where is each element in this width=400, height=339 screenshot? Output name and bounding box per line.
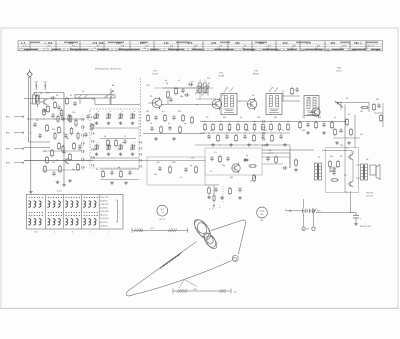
ground g2 <box>44 109 46 110</box>
wire w17 <box>237 100 247 102</box>
wire w9 <box>95 104 140 106</box>
capacitor C14 <box>158 167 161 169</box>
resistor R7 <box>58 144 61 149</box>
trimmer cap CT1 <box>197 86 200 93</box>
test aerial stub 1 <box>35 83 37 90</box>
svg-text:SP 6014-02-GL L3X71T /54: SP 6014-02-GL L3X71T /54 <box>95 68 121 70</box>
svg-text:6p: 6p <box>118 167 120 169</box>
resistor R14 <box>175 89 178 94</box>
capacitor C32 <box>57 106 60 108</box>
resistor R77 <box>54 134 56 139</box>
svg-text:MG: MG <box>376 50 380 52</box>
resistor R10 <box>69 155 72 160</box>
wire w32 <box>154 87 196 89</box>
resistor R51 <box>362 106 367 108</box>
leader line <box>179 280 184 289</box>
svg-text:g: g <box>122 142 123 144</box>
capacitor C13 <box>123 140 126 142</box>
svg-text:n5: n5 <box>168 123 170 125</box>
capacitor C18 <box>214 188 217 190</box>
loop aerial eyelet spiral <box>232 255 238 261</box>
svg-text:1n: 1n <box>180 177 182 179</box>
resistor R61 <box>337 162 340 167</box>
wire w10 <box>94 99 96 105</box>
svg-text:e: e <box>98 142 99 144</box>
svg-text:12: 12 <box>124 136 126 138</box>
svg-text:22k: 22k <box>340 145 343 147</box>
resistor R70 <box>54 103 57 108</box>
resistor R76 <box>91 125 93 130</box>
capacitor C16 <box>210 157 213 159</box>
bottom rule <box>0 307 399 309</box>
coil set column 4 <box>84 197 85 198</box>
svg-text:1k: 1k <box>210 171 212 173</box>
svg-text:R20: R20 <box>172 162 175 164</box>
resistor R15 <box>147 116 150 121</box>
wire w18 <box>200 121 345 123</box>
svg-text:M1: M1 <box>261 220 264 222</box>
svg-text:R1: R1 <box>150 96 152 98</box>
ground g12 <box>355 222 357 223</box>
wire w1 <box>34 92 64 94</box>
knob circle 2 <box>257 207 268 218</box>
resistor R3 <box>69 116 72 121</box>
svg-text:56: 56 <box>340 156 342 158</box>
resistor R17 <box>182 116 185 121</box>
svg-text:38-52 5,2: 38-52 5,2 <box>100 215 108 217</box>
svg-text:OC71: OC71 <box>336 70 342 72</box>
svg-text:n5: n5 <box>333 167 335 169</box>
speaker LS <box>370 165 376 175</box>
svg-text:a: a <box>286 209 287 211</box>
svg-text:5 140: 5 140 <box>260 211 265 213</box>
svg-text:240: 240 <box>164 42 169 45</box>
resistor R23 <box>107 141 110 146</box>
coil table frame <box>27 195 124 230</box>
capacitor C23 <box>339 129 342 131</box>
capacitor C11 <box>110 171 113 173</box>
capacitor C36 <box>61 117 64 119</box>
svg-text:C40: C40 <box>156 162 159 164</box>
ground g8 <box>239 196 241 197</box>
wire bus y145 <box>195 144 290 146</box>
capacitor C9 <box>150 127 153 129</box>
svg-text:8,2: 8,2 <box>162 111 165 113</box>
resistor R6 <box>46 126 49 131</box>
loop aerial tape marks <box>160 264 164 268</box>
svg-text:C30: C30 <box>190 81 193 83</box>
transistor Q-in <box>43 99 45 104</box>
dial scale tick marks <box>19 49 21 51</box>
resistor R54 <box>299 123 302 128</box>
svg-text:39: 39 <box>56 95 58 97</box>
svg-text:100: 100 <box>330 156 333 158</box>
wire w12 <box>163 87 205 89</box>
wire w24 <box>262 149 314 151</box>
resistor R1 <box>43 110 46 115</box>
resistor R53 <box>380 116 383 121</box>
svg-text:1n: 1n <box>282 130 284 132</box>
band switch contact column SKb <box>138 141 141 144</box>
output stage enclosure <box>326 148 359 193</box>
output transformer S6 <box>361 164 364 180</box>
resistor R29 <box>208 188 211 193</box>
capacitor C31 <box>62 150 65 152</box>
capacitor C24 <box>332 171 335 173</box>
resistor R12 <box>59 167 62 172</box>
svg-text:30: 30 <box>104 136 106 138</box>
resistor R78 <box>77 134 79 139</box>
svg-text:c: c <box>122 111 123 113</box>
resistor R26 <box>219 157 222 162</box>
svg-text:51: 51 <box>23 45 27 47</box>
coil set column 2 <box>48 197 49 198</box>
coil L2 <box>199 83 202 93</box>
capacitor C15 <box>184 168 187 170</box>
svg-text:52: 52 <box>48 45 52 47</box>
svg-text:L 2: L 2 <box>307 43 312 45</box>
svg-text:TS5: TS5 <box>268 150 271 152</box>
resistor R16 <box>164 116 167 121</box>
resistor R65 <box>295 160 298 165</box>
resistor R72 <box>47 107 50 112</box>
svg-text:12k: 12k <box>302 117 305 119</box>
bus vertical left <box>63 110 65 183</box>
ferrite rod aerial <box>75 95 115 98</box>
svg-text:220: 220 <box>154 174 157 176</box>
diode D1 <box>243 159 249 161</box>
wire w11 <box>162 104 215 106</box>
resistor row mid (R31-R41) <box>204 125 207 130</box>
capacitor C17 <box>226 157 229 159</box>
capacitor C10 <box>168 127 171 129</box>
thermistor R63 <box>330 168 335 171</box>
tuning link 2 (dashed) <box>213 186 215 197</box>
tuning slug arrows S3 <box>269 88 273 93</box>
aerial A1 <box>28 77 30 142</box>
wire w8 <box>90 157 139 159</box>
svg-text:n47: n47 <box>210 130 213 132</box>
svg-text:SK8: SK8 <box>317 211 321 213</box>
svg-text:3p: 3p <box>165 80 167 82</box>
wire w25 <box>352 160 354 181</box>
resistor R19 <box>160 127 163 132</box>
svg-text:30p: 30p <box>180 96 183 98</box>
trimmer coil block T4 top <box>131 114 132 119</box>
svg-text:S4: S4 <box>308 98 310 100</box>
trimmer coil block T4 bottom <box>131 145 132 150</box>
svg-text:15: 15 <box>208 83 210 85</box>
ground g13 <box>295 168 297 169</box>
battery terminal plus <box>302 227 305 230</box>
coil set column 1 <box>29 197 30 198</box>
capacitor C3 <box>33 123 36 125</box>
svg-text:b: b <box>110 111 111 113</box>
coil table side bracket <box>117 200 119 222</box>
output stage rail top <box>322 150 352 152</box>
resistor R22 <box>120 172 123 177</box>
coil S1 <box>33 95 36 104</box>
ground g7 <box>208 196 210 197</box>
resistor R66 <box>291 89 294 94</box>
svg-text:3,5-4,2 25: 3,5-4,2 25 <box>100 204 108 206</box>
wire w20 <box>335 101 369 103</box>
resistor R69 <box>36 96 39 101</box>
wire w15 <box>100 138 136 140</box>
svg-text:220: 220 <box>52 162 55 164</box>
svg-text:L3: L3 <box>82 91 84 93</box>
svg-text:S2: S2 <box>222 95 224 97</box>
resistor R30 <box>229 189 232 194</box>
svg-text:x: x <box>119 211 120 213</box>
band switch contact column SKa2 <box>91 116 94 119</box>
svg-text:M67 56 708: M67 56 708 <box>360 226 371 228</box>
resistor R62 <box>332 179 337 181</box>
driver transformer S5 <box>315 163 318 180</box>
transistor TS4 <box>312 108 320 116</box>
svg-text:54: 54 <box>72 45 76 47</box>
tuning link (dashed) <box>140 78 142 138</box>
resistor R73 <box>57 117 59 122</box>
svg-text:501: 501 <box>261 214 264 216</box>
transistor TS6 <box>349 154 351 159</box>
wire IF top <box>200 87 213 89</box>
wire w23 <box>333 137 360 139</box>
svg-text:S3: S3 <box>252 95 254 97</box>
svg-text:D1: D1 <box>346 98 348 100</box>
volume potentiometer R28 <box>253 176 256 181</box>
resistor R68 <box>44 167 47 172</box>
resistor R58 <box>346 120 349 125</box>
svg-text:2xOC72: 2xOC72 <box>366 195 373 197</box>
svg-text:1k: 1k <box>40 93 42 95</box>
svg-text:mm: mm <box>234 291 237 293</box>
wire w30 <box>282 90 284 101</box>
wire w5 <box>24 147 50 149</box>
resistor R57 <box>334 130 337 135</box>
resistor R27 <box>250 165 255 167</box>
ground g6 <box>111 181 113 182</box>
svg-text:68: 68 <box>36 120 38 122</box>
electrolytic capacitor C25 <box>353 215 359 217</box>
resistor R21 <box>102 172 105 177</box>
capacitor C34 <box>169 98 172 100</box>
capacitor C5 <box>52 172 55 174</box>
svg-text:470: 470 <box>302 130 305 132</box>
svg-text:W. 2-7: W. 2-7 <box>159 219 166 221</box>
resistor R25 <box>195 167 198 172</box>
dial scale dividers <box>29 41 31 51</box>
resistor R13 <box>167 92 170 97</box>
svg-text:25-38 3,5: 25-38 3,5 <box>100 200 108 202</box>
capacitor C7 <box>154 116 157 118</box>
resistor R67 <box>51 151 54 156</box>
capacitor C26 <box>266 157 269 159</box>
resistor R8 <box>73 144 76 149</box>
wire w33 <box>42 150 82 152</box>
svg-text:0,1: 0,1 <box>34 93 37 95</box>
aerial arrow input <box>110 89 112 105</box>
svg-text:3k3: 3k3 <box>318 117 321 119</box>
junction dots left <box>63 118 64 119</box>
capacitor C6 <box>181 89 184 91</box>
resistor R55 <box>315 123 318 128</box>
capacitor C38 <box>64 134 67 136</box>
wire w3 <box>27 118 83 120</box>
wire w22 <box>344 105 346 149</box>
capacitor C20 <box>377 104 380 106</box>
ground g4 <box>57 181 59 182</box>
svg-text:330: 330 <box>235 43 240 45</box>
transistor TS1 <box>152 98 162 108</box>
capacitor C28 <box>295 88 298 90</box>
loop aerial upper edge <box>127 292 129 297</box>
wire bottom bus <box>316 211 356 213</box>
svg-text:5k: 5k <box>348 114 350 116</box>
svg-text:360: 360 <box>259 43 264 45</box>
svg-text:5-7: 5-7 <box>161 212 164 214</box>
band switch contact column SKc <box>261 120 264 123</box>
svg-text:2,2k: 2,2k <box>72 112 76 114</box>
svg-text:5,2-6,4 38: 5,2-6,4 38 <box>100 211 108 213</box>
wire w4 <box>24 160 93 162</box>
svg-text:n1: n1 <box>334 117 336 119</box>
resistor R79 <box>62 147 64 152</box>
wire w21 <box>374 112 383 114</box>
capacitor C35 <box>185 93 187 96</box>
loop aerial apex edge <box>211 220 246 254</box>
svg-text:470: 470 <box>257 117 260 119</box>
svg-text:OC169: OC169 <box>218 75 225 77</box>
IF transformer S4 <box>304 96 319 116</box>
transistor TS2 <box>212 99 222 109</box>
svg-text:82k: 82k <box>274 117 277 119</box>
wire w2 <box>24 98 95 100</box>
svg-text:1k: 1k <box>240 117 242 119</box>
wire w14 <box>100 168 139 170</box>
dial scale frame <box>18 41 383 51</box>
diode D2 (detector) <box>337 103 343 108</box>
svg-text:270: 270 <box>188 43 193 45</box>
resistor R24 <box>169 167 172 172</box>
loop aerial winding coil <box>192 217 219 250</box>
wire w26 <box>285 210 302 212</box>
svg-text:2k2: 2k2 <box>360 111 363 113</box>
capacitor C4 <box>38 134 41 136</box>
svg-text:TS6 TS7: TS6 TS7 <box>366 193 373 195</box>
svg-text:25-38 3,5: 25-38 3,5 <box>100 208 108 210</box>
resistor R74 <box>68 116 70 121</box>
IF transformer S2 <box>221 94 237 115</box>
capacitor C2 <box>51 114 54 116</box>
wire w16 <box>147 160 205 162</box>
resistor R2 <box>60 111 63 116</box>
resistor R18 <box>191 118 194 123</box>
svg-text:±170: ±170 <box>150 228 154 230</box>
svg-text:n47: n47 <box>360 134 363 136</box>
wire w7 <box>90 127 139 129</box>
dimension line 2 <box>173 290 231 292</box>
svg-text:A2: A2 <box>112 84 114 87</box>
dial scale heavy scale segments <box>24 48 38 50</box>
wire w27 <box>302 213 304 227</box>
svg-text:2n2: 2n2 <box>246 130 249 132</box>
resistor R52 <box>373 105 376 110</box>
module board outline 2 <box>205 148 262 175</box>
wire bus mid <box>24 160 147 162</box>
band switch contact column SKa <box>81 118 84 121</box>
trimmer coil block T1 top <box>95 114 96 119</box>
svg-text:47: 47 <box>70 95 72 97</box>
test aerial stub 2 <box>44 83 46 90</box>
capacitor C39 <box>84 133 87 135</box>
capacitor C12 <box>128 171 131 173</box>
resistor R64 <box>275 157 278 162</box>
svg-text:470: 470 <box>178 111 181 113</box>
battery B1 <box>302 209 304 213</box>
wire w6 <box>29 141 50 143</box>
resistor R60 <box>329 162 332 167</box>
svg-text:2p: 2p <box>96 169 98 171</box>
dimension line 1 <box>132 229 188 231</box>
svg-text:400: 400 <box>283 42 288 45</box>
svg-text:11: 11 <box>144 48 147 50</box>
svg-text:S5: S5 <box>318 157 320 159</box>
svg-text:d: d <box>134 111 135 113</box>
transistor TS3 <box>247 99 257 109</box>
svg-text:6k8: 6k8 <box>223 117 226 119</box>
svg-text:AF116: AF116 <box>253 72 260 75</box>
resistor R9 <box>46 158 49 163</box>
ground under aerial <box>30 190 32 191</box>
svg-text:h: h <box>134 142 135 144</box>
svg-text:12k: 12k <box>46 93 49 95</box>
transistor Q2 <box>65 158 67 163</box>
svg-text:2n: 2n <box>150 123 152 125</box>
svg-text:38-52 5,2: 38-52 5,2 <box>100 222 108 224</box>
resistor R4 <box>58 128 61 133</box>
capacitor C1 <box>51 96 53 99</box>
resistor R59 <box>350 130 353 135</box>
IF transformer S3 <box>266 94 282 115</box>
svg-text:4k7: 4k7 <box>228 130 231 132</box>
svg-text:1n: 1n <box>44 151 46 153</box>
svg-text:56: 56 <box>97 45 101 47</box>
module board outline 1 <box>147 157 205 185</box>
svg-text:n5: n5 <box>178 80 180 82</box>
svg-text:25-38 3,5: 25-38 3,5 <box>100 225 108 227</box>
svg-text:±245: ±245 <box>193 289 197 291</box>
resistor R5 <box>70 129 73 134</box>
svg-text:450: 450 <box>330 42 335 45</box>
svg-text:560: 560 <box>264 130 267 132</box>
battery terminal minus <box>312 227 315 230</box>
resistor R56 <box>331 123 334 128</box>
svg-text:OC170: OC170 <box>152 73 159 75</box>
svg-text:10k: 10k <box>66 138 69 140</box>
trimmer coil block T2 bottom <box>107 145 108 150</box>
wire w31 <box>196 98 216 100</box>
svg-text:4n7: 4n7 <box>72 169 75 171</box>
tuning slug arrows S2 <box>224 88 228 93</box>
transistor TS5 <box>232 164 240 172</box>
svg-text:0,1: 0,1 <box>214 152 217 154</box>
capacitor C37 <box>86 115 89 117</box>
svg-text:SK5: SK5 <box>207 78 211 80</box>
capacitor C41 <box>78 145 81 147</box>
resistor R11 <box>77 165 80 170</box>
variable capacitor CV1 <box>205 86 208 93</box>
